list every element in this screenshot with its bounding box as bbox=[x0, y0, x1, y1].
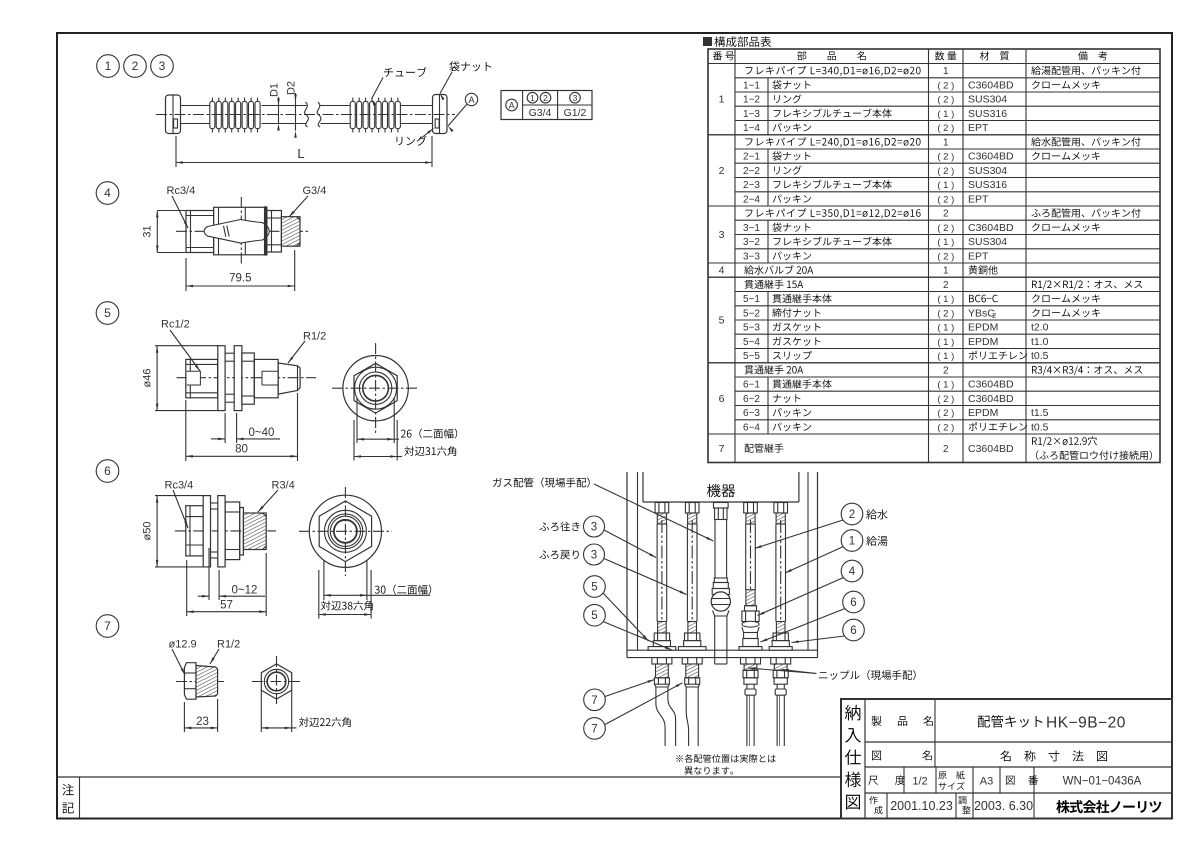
svg-text:80: 80 bbox=[235, 444, 248, 456]
item balloons 1 2 3 bbox=[97, 55, 120, 78]
svg-text:1−2: 1−2 bbox=[743, 95, 760, 106]
flex pipe centerline bbox=[156, 114, 455, 116]
svg-text:5−3: 5−3 bbox=[743, 323, 760, 334]
item balloon 5 bbox=[96, 302, 119, 325]
svg-text:7: 7 bbox=[591, 723, 597, 735]
svg-text:2: 2 bbox=[543, 93, 548, 103]
svg-text:2001.10.23: 2001.10.23 bbox=[890, 799, 953, 813]
svg-text:1−4: 1−4 bbox=[743, 123, 760, 134]
svg-text:A3: A3 bbox=[980, 776, 993, 788]
svg-text:6−3: 6−3 bbox=[743, 408, 760, 419]
dimension D2 arrows bbox=[295, 101, 297, 130]
svg-text:2: 2 bbox=[719, 165, 725, 177]
flex pipe right cap nut bbox=[433, 95, 448, 134]
flex pipe bellows left (tube) bbox=[210, 101, 215, 128]
locknut and nipple below plate x=661.9 bbox=[652, 658, 672, 664]
svg-text:A: A bbox=[509, 100, 515, 110]
svg-text:EPDM: EPDM bbox=[968, 322, 998, 334]
svg-text:( 1 ): ( 1 ) bbox=[937, 351, 954, 362]
svg-text:t1.0: t1.0 bbox=[1031, 336, 1049, 348]
svg-text:79.5: 79.5 bbox=[229, 273, 251, 285]
note about pipe positions bbox=[676, 754, 775, 763]
svg-text:( 1 ): ( 1 ) bbox=[937, 180, 954, 191]
svg-text:1: 1 bbox=[943, 138, 949, 149]
svg-text:G3/4: G3/4 bbox=[529, 107, 552, 119]
svg-text:R3/4: R3/4 bbox=[272, 480, 295, 492]
connection nut at x=692.2 bbox=[685, 503, 699, 514]
svg-text:G1/2: G1/2 bbox=[564, 107, 587, 119]
item6 centerline bbox=[175, 530, 276, 532]
svg-text:6−1: 6−1 bbox=[743, 380, 760, 391]
svg-text:4: 4 bbox=[849, 566, 856, 578]
svg-text:C3604BD: C3604BD bbox=[968, 379, 1014, 391]
svg-text:t2.0: t2.0 bbox=[1031, 322, 1049, 334]
svg-text:( 2 ): ( 2 ) bbox=[937, 252, 954, 263]
item5 front view centerlines bbox=[332, 387, 419, 389]
svg-text:3: 3 bbox=[719, 229, 725, 241]
dimension 23 bbox=[183, 702, 185, 732]
svg-text:( 2 ): ( 2 ) bbox=[937, 95, 954, 106]
svg-text:R1/2: R1/2 bbox=[303, 331, 326, 343]
svg-text:D1: D1 bbox=[269, 83, 281, 97]
item6 male thread R3/4 bbox=[243, 513, 266, 550]
balloon 7 first bbox=[584, 689, 606, 711]
dimension D1 arrows bbox=[278, 106, 280, 124]
item balloon 4 bbox=[96, 182, 119, 205]
connection nut at x=661.9 bbox=[655, 503, 669, 514]
item5 right socket bbox=[262, 371, 278, 385]
svg-text:5−1: 5−1 bbox=[743, 294, 760, 305]
component table title bbox=[703, 37, 712, 46]
svg-text:31: 31 bbox=[142, 225, 154, 237]
label cap nut (fukuro nut) bbox=[449, 61, 491, 71]
title block row3 bbox=[903, 767, 905, 793]
svg-text:6−4: 6−4 bbox=[743, 423, 760, 434]
pipe 5 (hot water) with centerline bbox=[775, 524, 777, 622]
svg-text:2−3: 2−3 bbox=[743, 180, 760, 191]
svg-text:1: 1 bbox=[849, 536, 855, 548]
item6 front view hexagon bbox=[319, 501, 371, 562]
dimension 26 across flats bbox=[356, 398, 358, 443]
item5 nut section bbox=[242, 353, 254, 404]
svg-text:2: 2 bbox=[943, 366, 949, 377]
svg-text:Rc3/4: Rc3/4 bbox=[167, 185, 196, 197]
flex pipe break symbol bbox=[305, 102, 309, 127]
svg-text:57: 57 bbox=[220, 600, 233, 612]
balloon 3 furo outgoing bbox=[539, 522, 579, 532]
connection nut at x=780.7 bbox=[774, 503, 788, 514]
item5 flange 1 bbox=[218, 346, 225, 411]
svg-text:WN−01−0436A: WN−01−0436A bbox=[1063, 776, 1142, 788]
equipment box (kiki) bbox=[642, 472, 644, 502]
item balloon 6 bbox=[96, 460, 119, 483]
dimension 0~40 bbox=[224, 413, 226, 443]
item5 socket Rc1/2 bbox=[187, 371, 201, 385]
svg-text:5: 5 bbox=[104, 306, 111, 320]
item6 front view outer circle bbox=[309, 495, 381, 567]
svg-text:2: 2 bbox=[943, 444, 949, 455]
svg-text:A: A bbox=[468, 95, 474, 105]
svg-text:1: 1 bbox=[719, 94, 725, 106]
flex pipe tube segments bbox=[181, 105, 210, 107]
item6 left hex bbox=[186, 506, 203, 556]
svg-text:3: 3 bbox=[591, 550, 597, 562]
item5 front view hexagon bbox=[354, 363, 397, 413]
locknut and nipple below plate x=692.2 bbox=[682, 658, 702, 664]
item5 left hex body bbox=[186, 359, 218, 397]
svg-text:t0.5: t0.5 bbox=[1031, 350, 1049, 362]
note strip bbox=[57, 776, 841, 778]
title block row1 labels bbox=[934, 699, 936, 767]
valve centerlines bbox=[176, 230, 308, 232]
svg-text:2−2: 2−2 bbox=[743, 166, 760, 177]
balloon 5 first bbox=[584, 576, 606, 598]
gas pipe lower bbox=[714, 616, 716, 664]
circled 1 2 header bbox=[527, 92, 538, 103]
pipe 4 (water) with centerline bbox=[745, 524, 747, 590]
balloon 5 second bbox=[584, 604, 606, 626]
item7 centerline bbox=[176, 681, 226, 683]
enclosure bottom plate bbox=[627, 649, 818, 651]
svg-text:C3604BD: C3604BD bbox=[968, 80, 1014, 92]
svg-text:ø50: ø50 bbox=[142, 522, 154, 541]
balloon 3 furo return bbox=[539, 550, 578, 559]
water valve item 4 on pipe 4 bbox=[746, 590, 755, 606]
svg-text:t1.5: t1.5 bbox=[1031, 407, 1049, 419]
svg-text:Rc3/4: Rc3/4 bbox=[165, 480, 194, 492]
valve body center bbox=[214, 207, 266, 255]
svg-text:2−4: 2−4 bbox=[743, 195, 760, 206]
svg-text:2: 2 bbox=[943, 280, 949, 291]
valve union nut bbox=[267, 211, 282, 253]
svg-text:2: 2 bbox=[132, 59, 139, 73]
component table rows bbox=[745, 66, 920, 76]
item7 hex head bbox=[184, 663, 196, 700]
balloon 7 second bbox=[584, 718, 606, 740]
equipment label kiki bbox=[707, 484, 735, 497]
svg-text:4: 4 bbox=[719, 265, 725, 277]
svg-text:1: 1 bbox=[943, 66, 949, 77]
item6 flange 1 bbox=[203, 496, 210, 567]
svg-text:2: 2 bbox=[943, 209, 949, 220]
svg-text:1−1: 1−1 bbox=[743, 81, 760, 92]
dimension hex 38 bbox=[318, 570, 320, 619]
balloon A bbox=[465, 93, 477, 105]
thread size table bbox=[501, 91, 592, 120]
svg-text:6: 6 bbox=[850, 625, 856, 637]
dimension 31 vertical bbox=[157, 210, 186, 212]
svg-text:SUS304: SUS304 bbox=[968, 236, 1007, 248]
furo pipe 1 curved down bbox=[656, 687, 665, 746]
valve seal ring (dark) bbox=[265, 207, 267, 255]
gas pipe top fitting bbox=[714, 503, 729, 509]
svg-text:3−3: 3−3 bbox=[743, 252, 760, 263]
svg-text:( 1 ): ( 1 ) bbox=[937, 337, 954, 348]
svg-text:0~12: 0~12 bbox=[232, 584, 258, 596]
svg-text:3−1: 3−1 bbox=[743, 223, 760, 234]
item5 tapered male R1/2 bbox=[278, 363, 300, 394]
svg-text:1: 1 bbox=[530, 93, 535, 103]
svg-text:2003. 6.30: 2003. 6.30 bbox=[974, 799, 1033, 813]
dimension 30 across flats bbox=[323, 560, 325, 600]
enclosure walls bbox=[626, 472, 628, 658]
item7 front view centerlines bbox=[252, 681, 301, 683]
bulkhead flange pipe4 bbox=[739, 647, 762, 651]
svg-text:( 2 ): ( 2 ) bbox=[937, 394, 954, 405]
svg-text:5: 5 bbox=[719, 315, 725, 327]
svg-text:SUS304: SUS304 bbox=[968, 165, 1007, 177]
gas pipe body bbox=[714, 520, 716, 579]
locknut nipple and pipe below plate x=780.7 bbox=[771, 658, 791, 664]
svg-text:6−2: 6−2 bbox=[743, 394, 760, 405]
title block frame bbox=[841, 699, 1172, 819]
dimension hex 22 bbox=[260, 690, 262, 732]
svg-text:C3604BD: C3604BD bbox=[968, 222, 1014, 234]
balloon 6 first bbox=[843, 591, 865, 613]
valve male thread G3/4 bbox=[281, 217, 300, 247]
valve handle (top view) bbox=[204, 220, 269, 244]
title block vertical label nonyushiyozu bbox=[845, 705, 860, 721]
item6 step ring bbox=[240, 508, 244, 556]
balloon A in table bbox=[506, 99, 518, 111]
bulkhead fitting above plate x=661.9 bbox=[658, 622, 667, 634]
svg-text:( 1 ): ( 1 ) bbox=[937, 109, 954, 120]
svg-text:6: 6 bbox=[104, 464, 111, 478]
flex pipe bellows right (tube) bbox=[350, 101, 355, 128]
svg-text:5−4: 5−4 bbox=[743, 337, 760, 348]
balloon 2 kyusui bbox=[841, 503, 863, 525]
note strip label bbox=[62, 784, 74, 795]
item balloon 7 bbox=[96, 615, 119, 638]
svg-text:7: 7 bbox=[591, 695, 597, 707]
svg-text:G3/4: G3/4 bbox=[303, 185, 327, 197]
label tube (chuubu) bbox=[384, 67, 427, 77]
company logo Noritz bbox=[1056, 800, 1161, 813]
svg-text:( 2 ): ( 2 ) bbox=[937, 223, 954, 234]
svg-text:23: 23 bbox=[196, 716, 209, 728]
svg-text:( 1 ): ( 1 ) bbox=[937, 323, 954, 334]
dimension 80 bbox=[185, 400, 187, 461]
component table header bbox=[713, 51, 734, 60]
item5 centerline bbox=[177, 377, 316, 379]
svg-text:EPT: EPT bbox=[968, 251, 989, 263]
svg-text:SUS316: SUS316 bbox=[968, 108, 1007, 120]
svg-text:2: 2 bbox=[849, 509, 855, 521]
item6 front view centerlines bbox=[299, 530, 392, 532]
svg-text:( 2 ): ( 2 ) bbox=[937, 195, 954, 206]
item7 male taper thread bbox=[196, 666, 218, 698]
svg-text:2−1: 2−1 bbox=[743, 152, 760, 163]
svg-text:ø46: ø46 bbox=[142, 369, 154, 388]
svg-text:1/2: 1/2 bbox=[912, 776, 927, 788]
svg-text:( 2 ): ( 2 ) bbox=[937, 423, 954, 434]
dimension 57 bbox=[186, 560, 188, 616]
bulkhead fitting above plate x=780.7 bbox=[776, 622, 785, 634]
svg-text:1: 1 bbox=[943, 266, 949, 277]
item5 flange 2 bbox=[234, 346, 242, 411]
balloon 1 kyuto bbox=[841, 530, 863, 552]
product name value bbox=[978, 715, 1043, 727]
item5 front view outer circle bbox=[343, 356, 408, 421]
svg-text:6: 6 bbox=[719, 393, 725, 405]
dimension phi50 bbox=[155, 495, 203, 497]
svg-text:EPDM: EPDM bbox=[968, 407, 998, 419]
gas pipe union valve bbox=[714, 578, 727, 583]
item5 front view circles bbox=[355, 367, 397, 409]
svg-text:( 1 ): ( 1 ) bbox=[937, 237, 954, 248]
svg-text:0~40: 0~40 bbox=[249, 427, 275, 439]
svg-text:EPT: EPT bbox=[968, 122, 989, 134]
drawing name value bbox=[1000, 750, 1107, 761]
svg-text:1−3: 1−3 bbox=[743, 109, 760, 120]
svg-text:3: 3 bbox=[573, 93, 578, 103]
item6 front view circles bbox=[324, 510, 366, 552]
svg-text:C3604BD: C3604BD bbox=[968, 443, 1014, 455]
svg-text:C3604BD: C3604BD bbox=[968, 151, 1014, 163]
item7 front view hexagon bbox=[261, 664, 291, 699]
svg-text:( 2 ): ( 2 ) bbox=[937, 123, 954, 134]
svg-text:EPT: EPT bbox=[968, 194, 989, 206]
bulkhead fitting above plate x=692.2 bbox=[688, 622, 697, 634]
locknut nipple and pipe below plate x=750.5 bbox=[741, 658, 761, 664]
svg-text:3: 3 bbox=[591, 522, 597, 534]
svg-text:D2: D2 bbox=[286, 81, 298, 95]
svg-text:t0.5: t0.5 bbox=[1031, 422, 1049, 434]
item5 body right bbox=[254, 359, 278, 397]
dimension phi46 bbox=[155, 345, 218, 347]
title block row2 bbox=[872, 751, 881, 761]
item6 nut section bbox=[225, 502, 240, 560]
dimension L bbox=[175, 136, 177, 167]
svg-text:SUS304: SUS304 bbox=[968, 94, 1007, 106]
svg-text:C3604BD: C3604BD bbox=[968, 393, 1014, 405]
svg-text:3: 3 bbox=[159, 59, 166, 73]
svg-text:2: 2 bbox=[992, 311, 996, 320]
svg-text:HK−9B−20: HK−9B−20 bbox=[1046, 715, 1126, 732]
balloon 4 valve bbox=[841, 560, 863, 582]
pipe 2 (furo) with centerline bbox=[686, 524, 688, 622]
connection nut at x=750.5 bbox=[744, 503, 758, 514]
svg-text:( 1 ): ( 1 ) bbox=[937, 380, 954, 391]
svg-text:ø12.9: ø12.9 bbox=[169, 639, 197, 651]
svg-text:5−2: 5−2 bbox=[743, 309, 760, 320]
svg-text:4: 4 bbox=[104, 186, 111, 200]
pipe 1 (furo) with centerline bbox=[656, 524, 658, 622]
svg-text:R1/2: R1/2 bbox=[217, 639, 240, 651]
svg-text:1: 1 bbox=[105, 59, 112, 73]
svg-text:5−5: 5−5 bbox=[743, 351, 760, 362]
valve body left hex bbox=[186, 211, 214, 253]
balloon 6 second bbox=[843, 619, 865, 641]
svg-text:5: 5 bbox=[591, 582, 597, 594]
svg-text:6: 6 bbox=[850, 597, 856, 609]
svg-text:L: L bbox=[297, 146, 304, 161]
item7 front view circles bbox=[264, 669, 288, 693]
svg-text:( 2 ): ( 2 ) bbox=[937, 408, 954, 419]
circled 3 header bbox=[570, 92, 581, 103]
component table grid bbox=[708, 49, 1160, 463]
svg-text:( 1 ): ( 1 ) bbox=[937, 294, 954, 305]
title block row4 bbox=[886, 793, 888, 819]
item5 thread between flanges bbox=[225, 352, 234, 354]
item6 flange 2 bbox=[218, 496, 225, 567]
item6 thread between flanges bbox=[211, 502, 218, 504]
svg-text:( 2 ): ( 2 ) bbox=[937, 309, 954, 320]
svg-text:7: 7 bbox=[104, 619, 111, 633]
flex pipe left cap nut bbox=[166, 95, 181, 134]
svg-text:( 2 ): ( 2 ) bbox=[937, 166, 954, 177]
svg-text:( 2 ): ( 2 ) bbox=[937, 152, 954, 163]
svg-text:5: 5 bbox=[591, 610, 597, 622]
svg-text:EPDM: EPDM bbox=[968, 336, 998, 348]
svg-text:7: 7 bbox=[719, 443, 725, 455]
svg-text:SUS316: SUS316 bbox=[968, 179, 1007, 191]
label ring (ringu) bbox=[396, 136, 426, 146]
label nipple (site supplied) bbox=[819, 670, 916, 680]
dimension hex 31 bbox=[353, 420, 355, 461]
svg-text:( 2 ): ( 2 ) bbox=[937, 81, 954, 92]
furo pipe 2 curved down bbox=[686, 687, 688, 746]
svg-text:3−2: 3−2 bbox=[743, 237, 760, 248]
svg-text:Rc1/2: Rc1/2 bbox=[161, 319, 190, 331]
dimension 79.5 bbox=[185, 258, 187, 291]
dimension 0~12 bbox=[208, 548, 210, 600]
label gas piping (site supplied) bbox=[493, 478, 590, 488]
